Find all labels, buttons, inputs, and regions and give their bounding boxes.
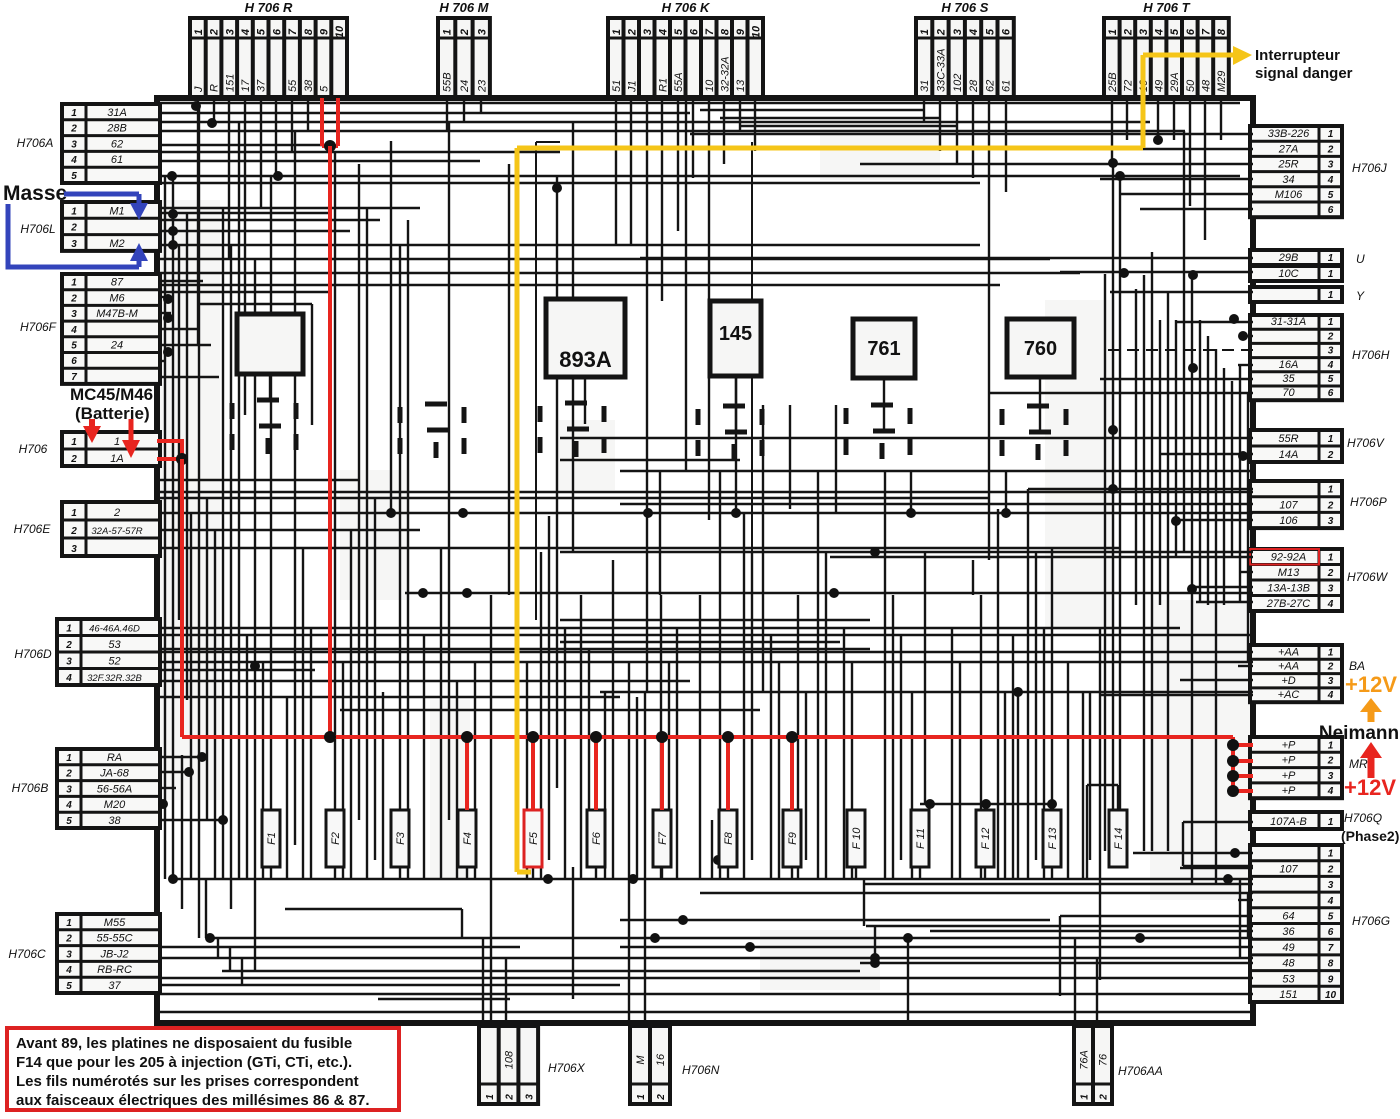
svg-text:3: 3 [224, 29, 236, 35]
svg-text:4: 4 [1327, 360, 1334, 371]
svg-text:5: 5 [318, 85, 330, 92]
svg-text:2: 2 [65, 769, 72, 780]
svg-text:2: 2 [1327, 144, 1334, 155]
svg-text:108: 108 [504, 1050, 516, 1069]
svg-text:H 706 R: H 706 R [245, 0, 293, 15]
svg-text:1: 1 [1328, 817, 1334, 828]
svg-text:1: 1 [71, 437, 77, 448]
svg-text:28B: 28B [106, 123, 127, 135]
svg-text:2: 2 [1327, 331, 1334, 342]
svg-text:F 14: F 14 [1113, 828, 1125, 850]
svg-text:H706G: H706G [1352, 914, 1390, 928]
svg-text:7: 7 [71, 372, 77, 383]
svg-text:H706L: H706L [20, 222, 55, 236]
svg-text:1: 1 [1328, 290, 1334, 301]
svg-text:2: 2 [656, 1094, 667, 1101]
svg-text:+P: +P [1282, 785, 1296, 797]
svg-text:8: 8 [1328, 959, 1334, 970]
svg-text:49: 49 [1154, 80, 1166, 92]
svg-text:Interrupteur: Interrupteur [1255, 47, 1340, 64]
svg-text:3: 3 [1138, 29, 1150, 35]
svg-text:1: 1 [1328, 129, 1334, 140]
svg-text:1: 1 [919, 29, 931, 35]
svg-text:F3: F3 [395, 831, 407, 845]
svg-text:145: 145 [719, 323, 752, 345]
svg-text:+AA: +AA [1278, 661, 1299, 673]
svg-text:H706AA: H706AA [1118, 1064, 1163, 1078]
svg-text:61: 61 [111, 154, 123, 166]
svg-text:Avant 89, les platines ne disp: Avant 89, les platines ne disposaient du… [16, 1035, 352, 1052]
svg-text:55B: 55B [442, 72, 454, 92]
svg-text:28: 28 [968, 79, 980, 93]
svg-text:M: M [635, 1055, 647, 1065]
svg-text:893A: 893A [559, 347, 612, 372]
svg-text:4: 4 [70, 155, 77, 166]
svg-text:+AC: +AC [1278, 689, 1300, 701]
svg-text:2: 2 [459, 29, 471, 36]
svg-text:33B-226: 33B-226 [1268, 128, 1310, 140]
svg-text:50: 50 [1185, 79, 1197, 92]
svg-text:72: 72 [1122, 80, 1134, 92]
svg-text:4: 4 [65, 965, 72, 976]
svg-text:55: 55 [287, 79, 299, 92]
svg-text:RA: RA [107, 752, 122, 764]
svg-text:1: 1 [71, 278, 77, 289]
svg-text:2: 2 [505, 1094, 516, 1101]
svg-text:2: 2 [209, 29, 221, 36]
svg-text:F6: F6 [591, 831, 603, 845]
svg-text:signal danger: signal danger [1255, 65, 1353, 82]
svg-text:U: U [1356, 252, 1365, 266]
svg-text:M55: M55 [104, 917, 126, 929]
svg-text:10: 10 [1325, 990, 1337, 1001]
svg-text:48: 48 [1282, 958, 1295, 970]
svg-text:13A-13B: 13A-13B [1267, 583, 1310, 595]
svg-text:2: 2 [1327, 864, 1334, 875]
svg-text:+12V: +12V [1344, 775, 1396, 800]
svg-text:H706X: H706X [548, 1061, 586, 1075]
svg-text:4: 4 [968, 29, 980, 36]
svg-text:M6: M6 [109, 292, 125, 304]
svg-text:5: 5 [673, 28, 685, 35]
svg-text:2: 2 [70, 223, 77, 234]
svg-text:Masse: Masse [3, 182, 67, 205]
svg-text:6: 6 [1185, 28, 1197, 35]
svg-text:F1: F1 [266, 832, 278, 845]
svg-text:55-55C: 55-55C [96, 933, 132, 945]
svg-text:49: 49 [1282, 942, 1294, 954]
svg-text:4: 4 [70, 325, 77, 336]
svg-text:1: 1 [1328, 253, 1334, 264]
svg-text:7: 7 [287, 28, 299, 35]
svg-text:106: 106 [1279, 515, 1298, 527]
svg-text:32A-57-57R: 32A-57-57R [91, 526, 142, 537]
svg-text:38: 38 [108, 815, 121, 827]
svg-text:H706V: H706V [1347, 436, 1385, 450]
svg-text:23: 23 [476, 79, 488, 93]
svg-text:5: 5 [1169, 28, 1181, 35]
svg-text:+P: +P [1282, 739, 1296, 751]
svg-text:F8: F8 [723, 831, 735, 845]
svg-text:H706A: H706A [17, 136, 54, 150]
svg-text:2: 2 [1327, 450, 1334, 461]
svg-text:53: 53 [1282, 973, 1295, 985]
svg-text:27B-27C: 27B-27C [1266, 598, 1310, 610]
svg-text:+AA: +AA [1278, 646, 1299, 658]
svg-text:6: 6 [1328, 388, 1334, 399]
svg-text:2: 2 [70, 526, 77, 537]
svg-text:1: 1 [1328, 647, 1334, 658]
svg-text:92-92A: 92-92A [1271, 552, 1306, 564]
svg-text:3: 3 [642, 29, 654, 35]
svg-text:13: 13 [735, 79, 747, 92]
svg-text:H 706 M: H 706 M [439, 0, 489, 15]
svg-text:1A: 1A [110, 453, 123, 465]
svg-text:H 706 T: H 706 T [1143, 0, 1190, 15]
svg-text:1: 1 [71, 206, 77, 217]
svg-text:2: 2 [1327, 756, 1334, 767]
svg-text:6: 6 [1328, 205, 1334, 216]
svg-text:3: 3 [1328, 880, 1334, 891]
svg-text:Les fils numérotés sur les pri: Les fils numérotés sur les prises corres… [16, 1073, 359, 1090]
svg-text:H706H: H706H [1352, 348, 1390, 362]
svg-text:H706W: H706W [1347, 570, 1389, 584]
svg-text:10: 10 [704, 79, 716, 92]
svg-text:2: 2 [65, 640, 72, 651]
svg-text:52: 52 [108, 656, 120, 668]
svg-text:aux faisceaux électriques des: aux faisceaux électriques des millésimes… [16, 1092, 370, 1109]
svg-text:1: 1 [66, 624, 72, 635]
svg-text:M29: M29 [1216, 71, 1228, 92]
svg-text:27A: 27A [1278, 143, 1299, 155]
svg-text:M106: M106 [1275, 189, 1303, 201]
svg-text:62: 62 [984, 80, 996, 92]
svg-text:2: 2 [1327, 662, 1334, 673]
svg-text:3: 3 [1328, 516, 1334, 527]
svg-text:MR: MR [1349, 757, 1368, 771]
svg-text:6: 6 [688, 28, 700, 35]
svg-text:62: 62 [111, 138, 123, 150]
svg-text:(Phase2): (Phase2) [1341, 828, 1399, 844]
svg-text:107A-B: 107A-B [1270, 816, 1307, 828]
svg-text:2: 2 [626, 29, 638, 36]
svg-text:+12V: +12V [1345, 672, 1397, 697]
svg-text:1: 1 [1328, 849, 1334, 860]
svg-text:M2: M2 [109, 238, 124, 250]
svg-text:H706C: H706C [8, 947, 46, 961]
svg-text:MC45/M46: MC45/M46 [70, 385, 153, 404]
svg-text:M13: M13 [1278, 567, 1300, 579]
svg-text:4: 4 [240, 29, 252, 36]
svg-text:H706E: H706E [14, 522, 52, 536]
svg-text:4: 4 [65, 800, 72, 811]
svg-text:2: 2 [65, 934, 72, 945]
svg-text:1: 1 [1080, 1094, 1091, 1100]
svg-text:2: 2 [1122, 29, 1134, 36]
svg-text:10: 10 [334, 25, 346, 38]
svg-text:32F.32R.32B: 32F.32R.32B [87, 673, 142, 684]
svg-text:5: 5 [66, 981, 72, 992]
svg-text:760: 760 [1024, 338, 1057, 360]
svg-text:H706D: H706D [14, 647, 52, 661]
svg-text:R: R [209, 84, 221, 92]
svg-text:3: 3 [1328, 771, 1334, 782]
svg-text:38: 38 [303, 79, 315, 92]
svg-text:33C-33A: 33C-33A [935, 49, 947, 92]
svg-text:2: 2 [1099, 1094, 1110, 1101]
svg-text:1: 1 [636, 1094, 647, 1100]
svg-text:H706N: H706N [682, 1063, 720, 1077]
svg-text:F9: F9 [787, 832, 799, 845]
svg-text:+D: +D [1281, 675, 1295, 687]
svg-text:3: 3 [952, 29, 964, 35]
svg-text:H706F: H706F [20, 320, 57, 334]
svg-text:5: 5 [66, 816, 72, 827]
svg-text:4: 4 [1327, 786, 1334, 797]
svg-text:3: 3 [66, 657, 72, 668]
svg-text:3: 3 [66, 784, 72, 795]
svg-text:Neimann: Neimann [1319, 723, 1399, 744]
svg-text:5: 5 [71, 341, 77, 352]
svg-text:1: 1 [611, 29, 623, 35]
svg-text:2: 2 [935, 29, 947, 36]
svg-text:36: 36 [1282, 926, 1295, 938]
svg-text:1: 1 [1328, 317, 1334, 328]
svg-text:107: 107 [1279, 499, 1298, 511]
svg-text:64: 64 [1282, 911, 1294, 923]
svg-text:3: 3 [1328, 676, 1334, 687]
svg-text:6: 6 [71, 356, 77, 367]
svg-text:4: 4 [1327, 690, 1334, 701]
svg-text:8: 8 [719, 28, 731, 35]
svg-text:3: 3 [66, 949, 72, 960]
svg-text:34: 34 [1282, 174, 1294, 186]
svg-text:H706: H706 [19, 442, 48, 456]
svg-text:29B: 29B [1278, 252, 1299, 264]
svg-text:1: 1 [71, 508, 77, 519]
svg-text:7: 7 [704, 28, 716, 35]
svg-text:R1: R1 [657, 78, 669, 92]
svg-text:5: 5 [1328, 374, 1334, 385]
svg-text:F 13: F 13 [1047, 827, 1059, 850]
svg-text:H 706 K: H 706 K [662, 0, 711, 15]
svg-text:4: 4 [65, 673, 72, 684]
svg-text:76A: 76A [1079, 1050, 1091, 1070]
svg-text:1: 1 [193, 29, 205, 35]
svg-text:F5: F5 [528, 831, 540, 845]
svg-text:32-32A: 32-32A [719, 57, 731, 92]
svg-text:6: 6 [1328, 927, 1334, 938]
svg-text:4: 4 [1327, 599, 1334, 610]
svg-text:3: 3 [1328, 346, 1334, 357]
svg-text:8: 8 [1216, 28, 1228, 35]
svg-text:102: 102 [952, 74, 964, 92]
svg-text:9: 9 [735, 28, 747, 35]
svg-text:55A: 55A [673, 72, 685, 92]
svg-text:151: 151 [1279, 989, 1297, 1001]
svg-text:F 11: F 11 [915, 828, 927, 849]
svg-text:F 10: F 10 [851, 827, 863, 850]
svg-text:9: 9 [318, 28, 330, 35]
svg-text:107: 107 [1279, 863, 1298, 875]
svg-text:8: 8 [303, 28, 315, 35]
svg-text:70: 70 [1282, 387, 1295, 399]
svg-text:5: 5 [984, 28, 996, 35]
svg-text:+P: +P [1282, 755, 1296, 767]
svg-text:761: 761 [867, 338, 900, 360]
svg-text:F2: F2 [330, 832, 342, 845]
svg-text:2: 2 [113, 507, 120, 519]
svg-text:3: 3 [524, 1094, 535, 1100]
svg-text:10: 10 [750, 25, 762, 38]
svg-text:1: 1 [1328, 553, 1334, 564]
svg-text:BA: BA [1349, 659, 1365, 673]
svg-text:F 12: F 12 [980, 828, 992, 850]
svg-text:7: 7 [1328, 943, 1334, 954]
svg-text:16: 16 [655, 1053, 667, 1066]
svg-text:M20: M20 [104, 799, 126, 811]
svg-text:3: 3 [1328, 584, 1334, 595]
svg-text:48: 48 [1200, 79, 1212, 92]
svg-text:4: 4 [1327, 896, 1334, 907]
svg-text:56-56A: 56-56A [97, 783, 132, 795]
svg-text:RB-RC: RB-RC [97, 964, 132, 976]
svg-text:3: 3 [476, 29, 488, 35]
svg-text:46-46A.46D: 46-46A.46D [89, 624, 140, 635]
svg-text:1: 1 [1328, 269, 1334, 280]
svg-text:H706B: H706B [12, 781, 49, 795]
svg-text:2: 2 [1327, 500, 1334, 511]
svg-text:25B: 25B [1107, 72, 1119, 93]
svg-text:JB-J2: JB-J2 [99, 948, 128, 960]
svg-text:4: 4 [657, 29, 669, 36]
svg-text:31: 31 [919, 80, 931, 92]
svg-text:61: 61 [1001, 80, 1013, 92]
svg-text:H706J: H706J [1352, 161, 1388, 175]
svg-text:31A: 31A [107, 107, 127, 119]
svg-text:87: 87 [111, 277, 124, 289]
svg-text:5: 5 [71, 171, 77, 182]
svg-text:F7: F7 [657, 831, 669, 845]
svg-text:4: 4 [1327, 175, 1334, 186]
svg-text:17: 17 [240, 79, 252, 92]
svg-text:Y: Y [1356, 289, 1365, 303]
svg-text:53: 53 [108, 639, 121, 651]
svg-text:4: 4 [1154, 29, 1166, 36]
svg-text:1: 1 [442, 29, 454, 35]
svg-text:37: 37 [108, 980, 121, 992]
svg-text:55R: 55R [1278, 433, 1298, 445]
svg-text:H706P: H706P [1350, 495, 1387, 509]
svg-text:2: 2 [70, 124, 77, 135]
svg-text:1: 1 [66, 918, 72, 929]
svg-text:1: 1 [1107, 29, 1119, 35]
svg-text:2: 2 [1327, 568, 1334, 579]
svg-text:3: 3 [1328, 160, 1334, 171]
svg-text:24: 24 [110, 340, 123, 352]
svg-text:24: 24 [459, 80, 471, 93]
svg-text:1: 1 [66, 753, 72, 764]
svg-text:3: 3 [71, 139, 77, 150]
svg-text:2: 2 [70, 293, 77, 304]
svg-text:29A: 29A [1169, 72, 1181, 93]
svg-text:51: 51 [611, 80, 623, 92]
svg-text:76: 76 [1098, 1053, 1110, 1066]
svg-text:3: 3 [71, 239, 77, 250]
svg-text:151: 151 [224, 74, 236, 92]
svg-text:5: 5 [256, 28, 268, 35]
svg-text:1: 1 [114, 436, 120, 448]
svg-text:10C: 10C [1278, 268, 1298, 280]
svg-text:JA-68: JA-68 [99, 768, 130, 780]
svg-text:1: 1 [71, 108, 77, 119]
svg-text:F4: F4 [462, 832, 474, 845]
svg-text:3: 3 [71, 544, 77, 555]
svg-text:3: 3 [71, 309, 77, 320]
svg-text:M47B-M: M47B-M [96, 308, 138, 320]
svg-text:M1: M1 [109, 205, 124, 217]
svg-text:5: 5 [1328, 190, 1334, 201]
svg-text:1: 1 [1328, 485, 1334, 496]
svg-text:1: 1 [1328, 434, 1334, 445]
svg-text:J1: J1 [626, 80, 638, 93]
svg-text:16A: 16A [1279, 359, 1299, 371]
svg-text:14A: 14A [1279, 449, 1299, 461]
svg-text:6: 6 [1001, 28, 1013, 35]
svg-text:J: J [193, 86, 205, 93]
svg-text:1: 1 [485, 1094, 496, 1100]
svg-text:2: 2 [70, 454, 77, 465]
svg-text:7: 7 [1200, 28, 1212, 35]
svg-text:25R: 25R [1277, 159, 1298, 171]
svg-text:+P: +P [1282, 770, 1296, 782]
svg-text:F14 que pour les 205 à injecti: F14 que pour les 205 à injection (GTi, C… [16, 1054, 352, 1071]
svg-text:35: 35 [1282, 373, 1295, 385]
svg-text:5: 5 [1328, 912, 1334, 923]
svg-text:H706Q: H706Q [1344, 811, 1382, 825]
svg-text:31-31A: 31-31A [1271, 316, 1306, 328]
svg-text:9: 9 [1328, 974, 1334, 985]
svg-text:(Batterie): (Batterie) [75, 404, 150, 423]
svg-text:6: 6 [271, 28, 283, 35]
svg-text:H 706 S: H 706 S [941, 0, 988, 15]
svg-text:37: 37 [256, 79, 268, 92]
